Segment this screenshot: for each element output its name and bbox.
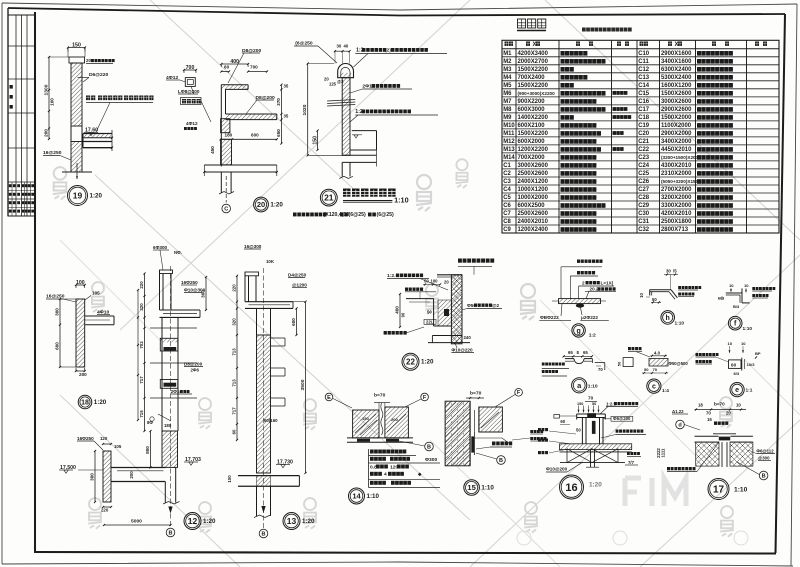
- detail 16 cap flashing: [577, 413, 606, 415]
- svg-text:50: 50: [592, 402, 596, 406]
- svg-text:717: 717: [139, 376, 144, 384]
- svg-text:700X2000: 700X2000: [518, 155, 546, 161]
- detail 13 parapet: [244, 272, 246, 302]
- svg-text:C25: C25: [638, 171, 650, 177]
- svg-text:1200X2200: 1200X2200: [518, 147, 549, 153]
- svg-text:1:4: 1:4: [662, 388, 669, 394]
- svg-text:4300X2010: 4300X2010: [661, 163, 692, 169]
- detail 18 left dim chain: [59, 299, 61, 367]
- detail 21 left dim chain 1020: [307, 64, 309, 156]
- svg-text:300: 300: [90, 473, 95, 481]
- svg-text:1:20: 1:20: [421, 359, 434, 366]
- svg-text:70: 70: [598, 367, 603, 372]
- svg-text:C21: C21: [638, 139, 650, 145]
- detail 13 left dim chain: [236, 276, 238, 440]
- detail 18 wall hatched: [76, 299, 85, 367]
- detail h profile: [650, 289, 671, 291]
- svg-text:713: 713: [232, 348, 237, 356]
- svg-text:20: 20: [86, 58, 92, 63]
- svg-text:C22: C22: [638, 147, 650, 153]
- detail c bubble: [647, 379, 661, 393]
- svg-text:Φ10@220: Φ10@220: [451, 348, 473, 353]
- svg-text:400: 400: [395, 306, 400, 314]
- svg-text:125: 125: [329, 82, 337, 87]
- detail 16 dims 50 20: [554, 414, 560, 418]
- svg-text:6/3: 6/3: [734, 371, 740, 376]
- svg-text:700: 700: [186, 65, 195, 71]
- svg-text:2400X1200: 2400X1200: [518, 179, 549, 185]
- thin page edge border: [2, 3, 797, 10]
- svg-text:220: 220: [232, 284, 237, 292]
- detail 17 slab band: [695, 435, 719, 437]
- svg-text:B: B: [499, 458, 503, 464]
- svg-text:15: 15: [707, 417, 712, 422]
- svg-text:10: 10: [639, 293, 644, 298]
- detail 13 right slab stubs: [271, 337, 286, 339]
- watermark diagonal lines: [95, 175, 470, 520]
- detail 12 bottom stem: [164, 482, 166, 503]
- detail 12 bottom slab: [111, 467, 165, 469]
- svg-text:50: 50: [644, 367, 649, 372]
- detail 12 centerline axis B: [170, 266, 172, 528]
- detail 19 left dim chain: [48, 57, 50, 139]
- svg-text:10: 10: [744, 283, 749, 288]
- svg-text:1000X2000: 1000X2000: [518, 195, 549, 201]
- svg-text:180: 180: [225, 133, 233, 138]
- svg-text:3000X2600: 3000X2600: [518, 163, 549, 169]
- detail a label left: [542, 363, 545, 366]
- detail g anchor bolt: [576, 303, 584, 307]
- svg-text:1111: 1111: [661, 448, 666, 458]
- svg-text:220: 220: [101, 508, 109, 513]
- svg-text:320: 320: [139, 303, 144, 311]
- svg-text:C20: C20: [638, 131, 650, 137]
- svg-text:2500X1800: 2500X1800: [661, 219, 692, 225]
- svg-text:40: 40: [344, 44, 349, 49]
- title strip vertical text: [10, 85, 13, 89]
- svg-text:LΦ8@200: LΦ8@200: [178, 89, 200, 94]
- svg-text:6300X2400: 6300X2400: [661, 67, 692, 73]
- svg-text:30: 30: [666, 269, 671, 274]
- svg-text:C2: C2: [503, 171, 511, 177]
- svg-text:b=70: b=70: [714, 402, 725, 407]
- detail 14 bottom band with pads: [347, 437, 413, 439]
- detail 15 right block hatched: [479, 407, 503, 432]
- svg-text:600X3000: 600X3000: [518, 107, 546, 113]
- svg-text:60: 60: [224, 65, 230, 70]
- svg-text:22: 22: [406, 358, 415, 367]
- svg-text:2900X2000: 2900X2000: [661, 131, 692, 137]
- svg-text:(6@25): (6@25): [377, 212, 395, 218]
- svg-text:800: 800: [145, 446, 150, 454]
- svg-text:2500X2600: 2500X2600: [518, 211, 549, 217]
- svg-text:400: 400: [230, 59, 239, 65]
- detail 15 circled B: [497, 456, 506, 465]
- svg-text:B: B: [262, 531, 266, 537]
- detail 14 axis E: [325, 393, 333, 401]
- svg-text:10: 10: [741, 341, 746, 346]
- svg-text:16@300: 16@300: [244, 244, 262, 249]
- svg-text:300: 300: [55, 308, 60, 316]
- watermark yi glyphs: [416, 175, 432, 211]
- svg-text:(5050+3200)X1500: (5050+3200)X1500: [661, 179, 701, 184]
- svg-text:100: 100: [76, 280, 85, 286]
- detail c main bar hatched: [649, 359, 668, 367]
- svg-text:70: 70: [706, 411, 711, 416]
- svg-text:600: 600: [55, 342, 60, 350]
- detail 12 parapet: [159, 270, 161, 310]
- svg-text:2400X2010: 2400X2010: [518, 219, 549, 225]
- svg-text:650: 650: [276, 129, 281, 137]
- svg-text:(900+3000)X2200: (900+3000)X2200: [518, 91, 556, 96]
- svg-text:7/7: 7/7: [628, 460, 635, 465]
- svg-text:1500X2600: 1500X2600: [661, 91, 692, 97]
- svg-text:2000X2700: 2000X2700: [518, 59, 549, 65]
- svg-text:Φ50@500: Φ50@500: [669, 361, 689, 366]
- detail g bubble: [572, 324, 585, 337]
- svg-text:70: 70: [653, 367, 658, 372]
- detail 12 left lower wall: [103, 451, 111, 502]
- svg-text:10: 10: [728, 341, 733, 346]
- svg-text:13: 13: [287, 516, 297, 526]
- svg-text:715: 715: [139, 410, 144, 418]
- detail 19 bubble: [68, 186, 88, 206]
- svg-text:M1: M1: [503, 51, 512, 57]
- svg-text:M11: M11: [503, 131, 515, 137]
- svg-text:1:10: 1:10: [734, 487, 748, 494]
- svg-text:1:10: 1:10: [588, 384, 598, 390]
- detail 12 roof slab at parapet: [160, 309, 201, 311]
- detail f profile: [726, 292, 742, 294]
- svg-text:1:20: 1:20: [90, 193, 103, 200]
- detail 17 crosshatch blocks below: [696, 442, 719, 466]
- svg-text:(2): (2): [385, 48, 391, 54]
- svg-text:C12: C12: [638, 67, 650, 73]
- svg-text:g: g: [576, 328, 580, 335]
- detail 22 stone wall hatched: [451, 275, 462, 344]
- svg-text:1:1: 1:1: [746, 388, 753, 394]
- svg-text:(6@250: (6@250: [295, 41, 313, 47]
- detail 12 dim 800: [150, 431, 152, 467]
- svg-text:35: 35: [284, 114, 289, 119]
- detail 12 window head box 1: [160, 338, 178, 351]
- detail 19 coping cap: [69, 57, 85, 63]
- detail 15 big wall hatched: [445, 401, 470, 466]
- svg-text:150: 150: [72, 42, 81, 48]
- svg-text:C32: C32: [638, 227, 650, 233]
- svg-text:4200X3400: 4200X3400: [518, 51, 549, 57]
- svg-text:65: 65: [583, 350, 588, 355]
- detail 22 box label: [424, 320, 436, 325]
- svg-text:M6: M6: [503, 91, 512, 97]
- svg-text:1:2: 1:2: [589, 333, 596, 339]
- svg-text:30: 30: [337, 44, 342, 49]
- svg-text:600X2000: 600X2000: [518, 139, 546, 145]
- svg-text:2700X2000: 2700X2000: [661, 187, 692, 193]
- svg-text:1200X2400: 1200X2400: [518, 227, 549, 233]
- svg-text:2Φ6: 2Φ6: [191, 368, 200, 373]
- svg-text:1500X2200: 1500X2200: [518, 67, 549, 73]
- svg-text:4200X2010: 4200X2010: [661, 211, 692, 217]
- detail 21 note line below: [293, 213, 297, 217]
- detail 19 ground line and arrow: [62, 171, 92, 173]
- svg-text:(6@25): (6@25): [349, 212, 367, 218]
- detail 19 mid annotation text: [86, 96, 90, 101]
- svg-text:C13: C13: [638, 75, 650, 81]
- detail 21 wall below slab: [341, 162, 343, 176]
- detail 16 left layer labels: [538, 428, 541, 431]
- svg-text:240: 240: [464, 335, 472, 340]
- svg-text:C24: C24: [638, 163, 650, 169]
- svg-text:M4: M4: [503, 75, 512, 81]
- svg-text:18: 18: [698, 403, 703, 408]
- detail 13 bottom stem: [256, 486, 258, 516]
- detail 20 boxed label: [181, 98, 202, 105]
- detail 12 dim 220 bottom: [103, 506, 111, 508]
- svg-text:M10: M10: [503, 123, 515, 129]
- svg-text:4.0: 4.0: [654, 351, 661, 356]
- svg-text:200: 200: [129, 471, 134, 479]
- svg-text:C9: C9: [503, 227, 511, 233]
- svg-text:1:10: 1:10: [394, 196, 409, 205]
- svg-text:B: B: [427, 444, 431, 450]
- svg-text:8Φ: 8Φ: [147, 420, 153, 425]
- svg-text:@2: @2: [492, 303, 500, 308]
- detail 19 slab: [83, 133, 112, 135]
- svg-text:5300X2400: 5300X2400: [661, 75, 692, 81]
- svg-text:100: 100: [227, 475, 232, 483]
- svg-text:3500: 3500: [300, 379, 306, 390]
- svg-text:Φ10@200: Φ10@200: [546, 467, 568, 472]
- svg-text:1500X2000: 1500X2000: [661, 115, 692, 121]
- detail 20 bubble: [254, 197, 269, 212]
- svg-text:C19: C19: [638, 123, 650, 129]
- detail 20 bottom slab: [204, 164, 276, 166]
- svg-text:C11: C11: [638, 59, 649, 65]
- svg-text:1600X1200: 1600X1200: [661, 83, 692, 89]
- detail 14 left wall block: [353, 410, 379, 438]
- detail 16 curb walls: [581, 418, 583, 444]
- svg-text:200: 200: [44, 129, 49, 137]
- detail 16 right labels: [627, 452, 630, 455]
- svg-text:1100X2000: 1100X2000: [661, 123, 692, 129]
- detail 16 roof slab hatched: [560, 444, 632, 450]
- svg-text:15: 15: [467, 483, 475, 492]
- table grid: [502, 40, 779, 233]
- svg-text:1:10: 1:10: [367, 493, 380, 500]
- svg-text:3400X1600: 3400X1600: [661, 59, 692, 65]
- svg-text:2800X713: 2800X713: [661, 227, 689, 233]
- detail 21 stair slab steps: [352, 130, 377, 132]
- svg-text:16@250: 16@250: [43, 150, 62, 156]
- svg-text:M13: M13: [503, 147, 515, 153]
- detail 16 boxed label phi6@200: [611, 416, 633, 421]
- svg-text:320: 320: [232, 318, 237, 326]
- svg-text:19: 19: [73, 191, 83, 201]
- svg-text:16Φ250: 16Φ250: [77, 436, 94, 441]
- svg-text:50: 50: [576, 428, 581, 433]
- detail 20 dim 700 over square: [184, 69, 196, 71]
- svg-text:C1: C1: [503, 163, 511, 169]
- svg-text:E: E: [327, 395, 331, 401]
- svg-text:100: 100: [431, 279, 439, 284]
- svg-text:C29: C29: [638, 203, 650, 209]
- svg-text:6Φ300: 6Φ300: [153, 245, 168, 250]
- svg-text:C15: C15: [638, 91, 650, 97]
- svg-text:μ2Φ222: μ2Φ222: [581, 315, 598, 320]
- detail 13 roof slab stub: [245, 301, 293, 303]
- svg-text:717: 717: [232, 407, 237, 415]
- detail 21 handrail cap: [338, 64, 354, 78]
- svg-text:20: 20: [444, 280, 449, 285]
- svg-text:2500X2600: 2500X2600: [518, 171, 549, 177]
- detail h bubble: [661, 311, 675, 325]
- svg-text:50: 50: [652, 297, 657, 302]
- svg-text:Φ6@200: Φ6@200: [613, 416, 631, 421]
- detail c label top: [628, 347, 631, 350]
- detail 22 left dim chain 400: [399, 294, 401, 327]
- svg-text:@300: @300: [758, 456, 770, 461]
- detail 17 bubble: [708, 479, 729, 500]
- svg-text:1000X1200: 1000X1200: [518, 187, 549, 193]
- svg-text:M3: M3: [503, 67, 512, 73]
- svg-text:370: 370: [276, 98, 281, 106]
- svg-text:b=70: b=70: [374, 393, 386, 399]
- detail 15 joint lines: [469, 401, 471, 466]
- thick drawing frame: [8, 8, 785, 16]
- detail f right labels: [752, 287, 755, 290]
- svg-text:10: 10: [736, 403, 741, 408]
- svg-text:BΡ: BΡ: [755, 351, 761, 356]
- svg-text:105: 105: [92, 291, 100, 296]
- svg-text:50: 50: [424, 279, 429, 284]
- detail h right labels: [678, 286, 681, 289]
- detail a profile with drip: [565, 358, 574, 360]
- svg-text:(3200+1500)X2010: (3200+1500)X2010: [661, 155, 701, 160]
- svg-text:60(160: 60(160: [264, 418, 278, 423]
- detail e bubble: [730, 383, 744, 397]
- svg-text:105: 105: [114, 444, 122, 449]
- detail 14 right wall block: [385, 407, 409, 438]
- svg-text:900X2200: 900X2200: [518, 99, 546, 105]
- svg-text:12: 12: [188, 516, 198, 526]
- detail 22 bubble: [402, 353, 419, 370]
- svg-text:65: 65: [568, 350, 573, 355]
- svg-text:450: 450: [210, 146, 215, 154]
- detail 14 bubble: [349, 488, 365, 504]
- detail 12 bottom dim 5000: [104, 524, 171, 526]
- svg-text:1300: 1300: [44, 84, 50, 95]
- detail 18 slab: [85, 315, 114, 317]
- svg-text:16@250: 16@250: [46, 294, 65, 300]
- detail 22 top cap line: [437, 274, 462, 276]
- svg-text:600: 600: [251, 133, 259, 138]
- svg-text:1400X2200: 1400X2200: [518, 115, 549, 121]
- detail 22 hatch wedge and drainage: [438, 300, 451, 326]
- detail 15 label: [492, 442, 496, 446]
- detail 13 bottom slab: [238, 475, 299, 477]
- svg-text:2: 2: [582, 281, 585, 286]
- watermark ghost circles bottom: [517, 531, 531, 545]
- detail 22 footing: [432, 335, 462, 337]
- detail g stacked notes: [577, 260, 580, 263]
- svg-text:B/3: B/3: [718, 296, 725, 301]
- detail 20 bottom stem: [220, 172, 222, 193]
- svg-text:D8@200: D8@200: [184, 362, 203, 367]
- svg-text:C6: C6: [503, 203, 511, 209]
- detail 22 label small: [405, 288, 408, 291]
- table header text: [505, 42, 509, 46]
- detail 22 ground surface step: [406, 298, 434, 300]
- detail e label left: [696, 353, 699, 356]
- detail 18 bubble: [78, 395, 92, 409]
- detail 16 arrows cluster: [578, 406, 580, 413]
- detail 12 right dim 300: [205, 277, 207, 310]
- svg-text:1500X2200: 1500X2200: [518, 131, 549, 137]
- detail 12 window ext lines: [150, 327, 197, 329]
- svg-text:B/3: B/3: [733, 304, 740, 309]
- svg-text:D6@220: D6@220: [89, 72, 109, 78]
- svg-text:14: 14: [352, 492, 361, 501]
- svg-text:70: 70: [588, 396, 594, 401]
- svg-text:120: 120: [100, 436, 108, 441]
- svg-text:20: 20: [726, 411, 731, 416]
- svg-text:M12: M12: [503, 139, 515, 145]
- detail 13 dim 600 rotated: [296, 308, 298, 335]
- svg-text:ΦΒΦ222: ΦΒΦ222: [540, 315, 559, 320]
- svg-text:C4: C4: [503, 187, 511, 193]
- svg-text:B: B: [762, 473, 766, 479]
- svg-text:C17: C17: [638, 107, 650, 113]
- svg-text:4Φ12: 4Φ12: [186, 121, 198, 126]
- detail 22 label stone wall: [458, 259, 462, 263]
- svg-text:C10: C10: [638, 51, 650, 57]
- svg-text:C30: C30: [638, 211, 650, 217]
- svg-text:150: 150: [577, 402, 583, 406]
- svg-text:b=70: b=70: [470, 391, 482, 397]
- svg-text:1:20: 1:20: [270, 202, 283, 209]
- svg-text:60: 60: [560, 419, 565, 424]
- svg-text:1:10: 1:10: [481, 485, 494, 492]
- svg-text:3000X2600: 3000X2600: [661, 99, 692, 105]
- svg-text:M7: M7: [503, 99, 512, 105]
- detail 14 joint filler: [381, 403, 383, 435]
- svg-text:/5: /5: [673, 269, 677, 274]
- svg-text:c: c: [652, 384, 656, 391]
- detail 22 lower-left label: [384, 331, 387, 335]
- svg-text:1020: 1020: [302, 104, 308, 115]
- detail 12 window head box 2: [160, 380, 178, 389]
- svg-text:150: 150: [312, 136, 318, 145]
- detail 19 dim 150 top: [68, 47, 85, 49]
- svg-text:600X2100: 600X2100: [518, 123, 546, 129]
- detail 12 big hatched column: [162, 431, 178, 467]
- svg-text:220: 220: [139, 281, 144, 289]
- svg-text:NΦ.: NΦ.: [174, 250, 182, 255]
- svg-text:600: 600: [291, 318, 296, 326]
- detail e profile: [729, 360, 742, 369]
- svg-text:M14: M14: [503, 155, 515, 161]
- svg-text:X: X: [533, 41, 537, 48]
- svg-text:Φ300: Φ300: [425, 457, 437, 463]
- detail 15 sealant black: [471, 436, 474, 452]
- detail 20 right dim chain near: [280, 85, 282, 120]
- detail 21 wall hatched: [342, 78, 350, 156]
- svg-text:16: 16: [565, 482, 577, 494]
- detail 14 circled B leader: [425, 442, 434, 451]
- svg-text:50: 50: [617, 361, 622, 366]
- svg-text:10K: 10K: [266, 259, 275, 264]
